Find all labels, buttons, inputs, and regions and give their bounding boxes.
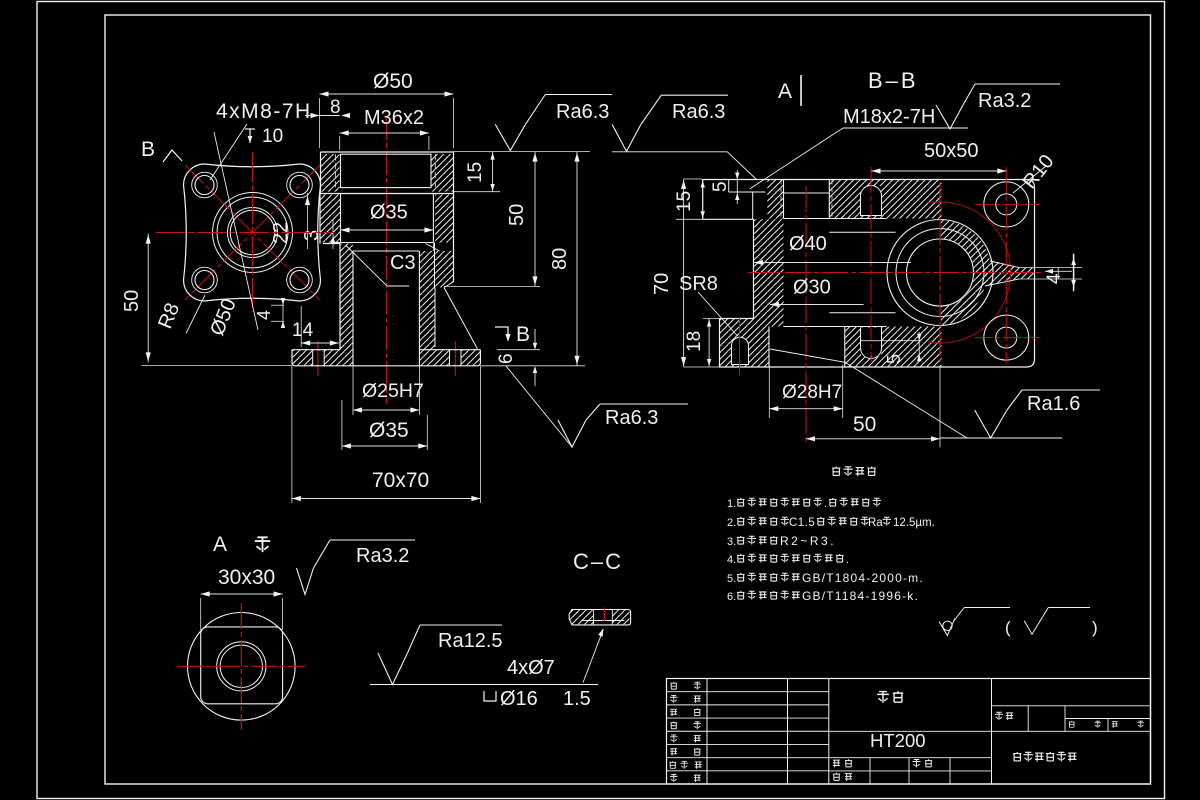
svg-text:): ) <box>1092 618 1098 637</box>
svg-text:14: 14 <box>292 320 314 341</box>
svg-text:30x30: 30x30 <box>218 566 275 589</box>
thread bore M36 <box>341 154 432 187</box>
title block middle rows <box>829 730 992 732</box>
surface finish Ra1.6 <box>940 437 1062 439</box>
svg-text:18: 18 <box>684 331 705 352</box>
svg-text:SR8: SR8 <box>679 273 718 295</box>
title block right rows <box>992 705 1151 707</box>
main view hatch right wall <box>419 251 453 350</box>
svg-text:12.5µm.: 12.5µm. <box>893 517 935 529</box>
title block verticals <box>706 679 708 785</box>
svg-text:Ra3.2: Ra3.2 <box>356 545 409 567</box>
svg-text:4xM8-7H: 4xM8-7H <box>216 100 312 123</box>
svg-text:A: A <box>213 533 227 556</box>
svg-text:R2~R3.: R2~R3. <box>780 534 836 548</box>
BB centerline M18 axis <box>805 186 807 445</box>
svg-text:50: 50 <box>121 290 143 312</box>
svg-text:Ø28H7: Ø28H7 <box>782 382 842 403</box>
BB disk circles <box>887 220 993 326</box>
svg-text:Ø35: Ø35 <box>370 202 408 224</box>
title block left rows <box>667 691 829 693</box>
A view thread circles M18 <box>217 642 266 691</box>
BB bore d40 lines <box>784 218 887 220</box>
svg-text:HT200: HT200 <box>870 730 926 751</box>
BB hatch right of M18 <box>829 180 846 219</box>
BB outline <box>703 180 1027 220</box>
svg-text:Ra6.3: Ra6.3 <box>672 101 725 123</box>
BB hatch disk crescent <box>941 220 990 326</box>
bore d25 walls <box>352 251 354 366</box>
title block bottom labels <box>833 760 840 767</box>
C-C bar centerline <box>604 608 606 622</box>
front view centerline horizontal <box>156 232 335 234</box>
svg-text:6: 6 <box>496 353 517 364</box>
svg-text:C1.5: C1.5 <box>789 517 815 529</box>
counterbore d35 <box>340 194 342 243</box>
seat cone chamfer C3 <box>346 246 387 286</box>
svg-text:4: 4 <box>1044 273 1065 284</box>
svg-text:70x70: 70x70 <box>372 469 429 492</box>
BB hatch bottom band <box>845 327 942 368</box>
svg-text:B: B <box>516 323 530 346</box>
rest surface symbol <box>939 618 955 635</box>
svg-text:50: 50 <box>853 413 876 436</box>
front view bore circle <box>228 208 278 258</box>
svg-text:3.: 3. <box>727 536 736 548</box>
BB corner hole top right <box>984 182 1029 227</box>
svg-text:B: B <box>141 138 155 161</box>
svg-text:4: 4 <box>254 310 274 320</box>
boss outline M36 boss <box>321 151 454 153</box>
BB seat lines at flange face <box>990 261 1019 268</box>
main view hatch neck left <box>340 244 353 366</box>
svg-text:C–C: C–C <box>573 549 623 574</box>
A view square 30x30 <box>201 627 283 704</box>
BB step groove top left <box>728 180 730 193</box>
svg-text:(: ( <box>1005 618 1011 637</box>
svg-text:1.5: 1.5 <box>563 688 591 710</box>
surface finish Ra6.3 top second <box>612 124 641 151</box>
surface finish Ra1.6 leader <box>770 349 845 362</box>
title block xuhao <box>995 712 1003 720</box>
surface finish Ra6.3 bottom leader <box>506 366 572 447</box>
main view hatch flange right <box>435 195 454 243</box>
BB M18 thread bore <box>783 180 785 219</box>
svg-text:GB/T1804-2000-m.: GB/T1804-2000-m. <box>802 571 924 585</box>
svg-text:Ra: Ra <box>868 517 883 529</box>
svg-text:4.: 4. <box>727 554 736 566</box>
BB centerline axis horizontal <box>748 272 1042 274</box>
title block school name <box>1013 752 1021 761</box>
A view circle d40 <box>188 613 296 721</box>
svg-text:5.: 5. <box>727 573 736 585</box>
svg-text:Ø35: Ø35 <box>369 419 409 442</box>
main view hatch boss left <box>321 154 340 192</box>
front view boss circle d50 <box>213 193 293 273</box>
BB bore d28 walls bottom <box>768 327 770 368</box>
right gusset <box>444 288 477 349</box>
BB hidden circle red <box>928 202 1011 343</box>
BB centerline corner holes <box>1005 167 1007 364</box>
C-C leader arrow <box>583 629 603 682</box>
main view hatch bottom flange left <box>292 350 340 366</box>
bolt hole M8 <box>195 271 214 290</box>
title block part name <box>877 691 889 703</box>
svg-text:A: A <box>778 80 792 103</box>
tech requirements title <box>832 467 840 476</box>
leader Ra6.3 to BB view <box>612 151 728 153</box>
svg-text:3: 3 <box>301 230 323 241</box>
front view chamfer circle <box>217 197 288 268</box>
BB hatch beak <box>983 259 1019 287</box>
BB hatch bottom left foot <box>720 319 770 368</box>
title block page labels <box>1069 721 1075 727</box>
main view hatch flange left <box>320 195 341 243</box>
svg-text:4xØ7: 4xØ7 <box>507 657 555 679</box>
leader line phi50 bcd <box>214 132 258 330</box>
svg-text:GB/T1184-1996-k.: GB/T1184-1996-k. <box>802 589 919 603</box>
svg-text:Ø50: Ø50 <box>373 70 413 93</box>
svg-text:50x50: 50x50 <box>924 140 979 162</box>
svg-text:6.: 6. <box>727 591 736 603</box>
C-C bar hatch <box>569 610 593 625</box>
svg-text:1.: 1. <box>727 498 736 510</box>
BB bore d30 lines <box>829 231 895 233</box>
svg-text:.: . <box>846 554 849 566</box>
svg-text:C3: C3 <box>390 252 416 274</box>
svg-text:Ra6.3: Ra6.3 <box>605 407 658 429</box>
A view centerlines <box>177 665 305 667</box>
surface finish Ra12.5 <box>370 684 598 686</box>
BB hatch top band <box>846 180 942 219</box>
right inner wall <box>434 243 436 288</box>
bore d25 top <box>353 250 419 252</box>
svg-text:50: 50 <box>506 204 528 226</box>
svg-text:B–B: B–B <box>868 68 919 93</box>
svg-text:15: 15 <box>465 162 486 183</box>
BB bottom slot hole <box>861 328 881 357</box>
bolt hole lines bottom flange <box>312 350 314 366</box>
front view centerline vertical <box>252 152 254 312</box>
svg-text:5: 5 <box>710 181 731 192</box>
surface finish Ra6.3 bottom <box>558 420 586 447</box>
BB centerline SR8 pocket <box>739 317 741 375</box>
svg-text:Ø40: Ø40 <box>789 233 827 255</box>
C-C bar inner lines <box>581 620 624 622</box>
label depth 10 <box>249 129 251 143</box>
svg-text:80: 80 <box>549 248 571 270</box>
svg-text:.: . <box>824 498 827 510</box>
surface finish Ra6.3 top left <box>495 124 525 150</box>
title block left labels <box>670 682 677 689</box>
svg-text:15: 15 <box>674 191 695 212</box>
bolt hole M8 <box>290 176 309 195</box>
svg-text:Ø30: Ø30 <box>793 277 831 299</box>
front view centerline diagonal 2 <box>185 165 320 300</box>
svg-text:8: 8 <box>330 97 341 118</box>
BB centerline vertical disk <box>939 182 941 362</box>
BB hatch left wall <box>754 219 784 326</box>
BB top slot hole <box>861 186 881 216</box>
svg-text:Ra3.2: Ra3.2 <box>978 90 1031 112</box>
svg-text:Ø16: Ø16 <box>500 688 538 710</box>
svg-text:Ra12.5: Ra12.5 <box>438 630 503 652</box>
svg-text:Ra6.3: Ra6.3 <box>556 101 609 123</box>
bolt hole centerline right <box>454 341 456 376</box>
section line A right <box>1073 254 1075 292</box>
neck left outer <box>339 244 341 350</box>
surface finish Ra3.2 top right <box>936 105 963 129</box>
bolt hole centerline left <box>317 341 319 376</box>
svg-text:5: 5 <box>884 354 904 364</box>
svg-text:Ra1.6: Ra1.6 <box>1027 393 1080 415</box>
svg-text:10: 10 <box>262 126 283 147</box>
main view hatch bottom flange right <box>419 350 480 366</box>
surface finish Ra3.2 at A view <box>297 568 314 595</box>
BB corner hole bottom right <box>984 315 1029 360</box>
bolt hole M8 <box>290 271 309 290</box>
svg-text:M18x2-7H: M18x2-7H <box>843 106 935 128</box>
front view outline flange <box>184 164 321 301</box>
BB SR8 pocket <box>732 337 749 364</box>
svg-text:Ø25H7: Ø25H7 <box>362 380 424 402</box>
svg-text:2.: 2. <box>727 517 736 529</box>
main view centerline <box>386 116 388 404</box>
svg-text:M36x2: M36x2 <box>364 107 424 129</box>
title block outline <box>667 679 1151 785</box>
C-C bar outline <box>569 610 630 625</box>
main view hatch boss right <box>431 154 454 192</box>
BB hatch left wall top <box>767 180 783 219</box>
svg-text:70: 70 <box>651 273 673 295</box>
BB hatch seat strip <box>1019 268 1034 280</box>
flange top face <box>320 193 454 195</box>
bolt hole M8 <box>195 176 214 195</box>
bottom flange 70x70 <box>292 349 340 351</box>
label counterbore d16 1.5 <box>484 691 496 701</box>
front view centerline diagonal 1 <box>185 165 320 300</box>
